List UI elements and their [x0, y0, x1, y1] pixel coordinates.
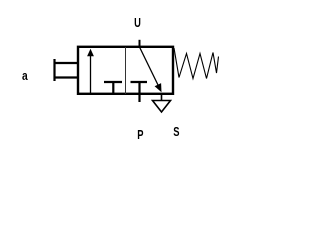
svg-text:a: a [22, 70, 28, 83]
svg-text:S: S [173, 125, 180, 139]
svg-text:U: U [134, 17, 141, 31]
svg-text:P: P [137, 128, 144, 142]
